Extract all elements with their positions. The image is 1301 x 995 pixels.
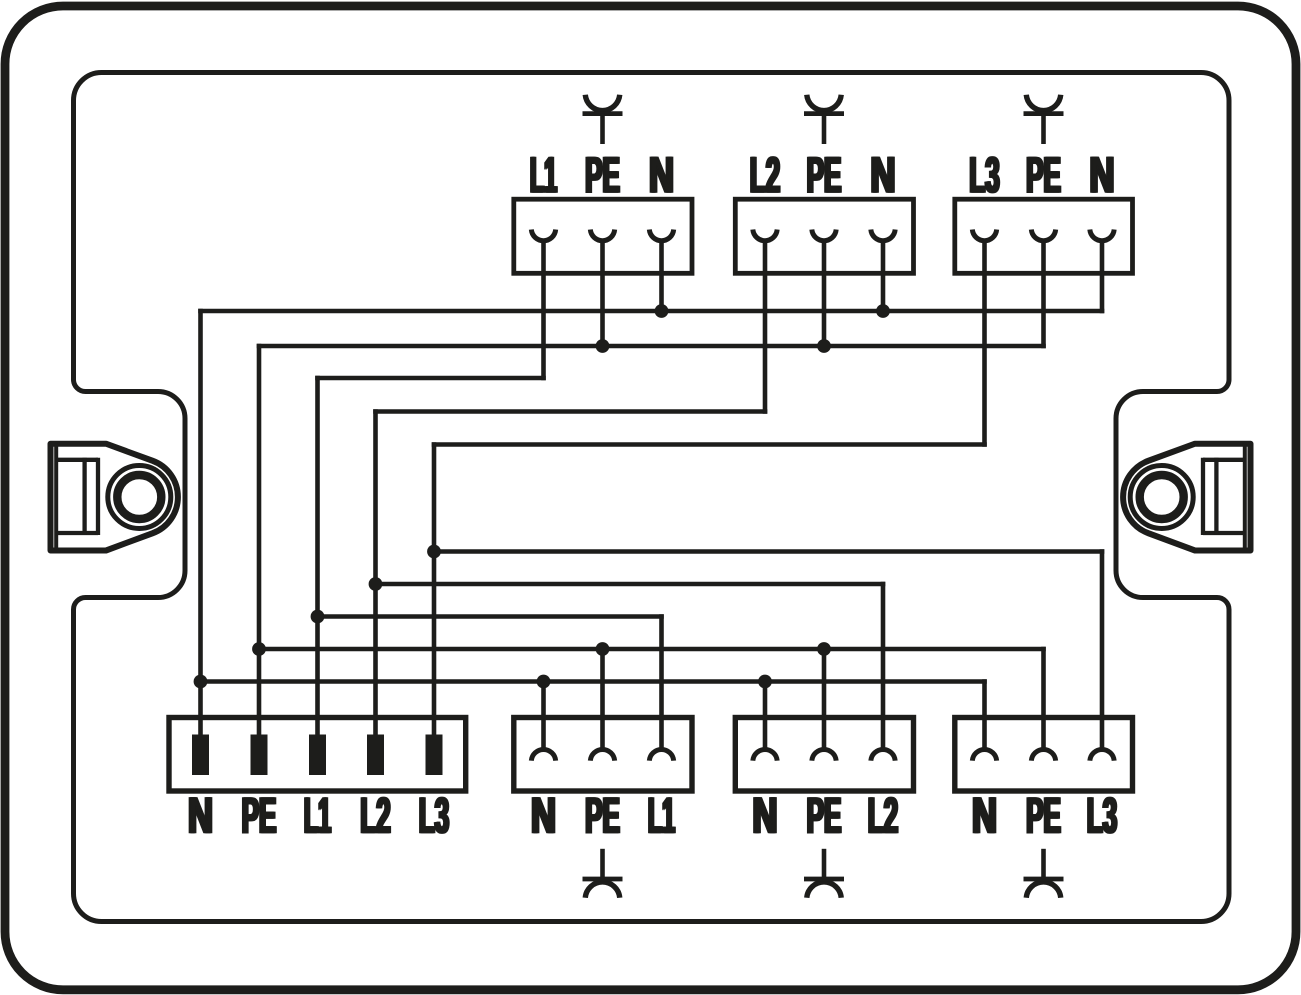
svg-text:N: N <box>872 148 897 204</box>
svg-text:PE: PE <box>586 147 621 204</box>
svg-text:PE: PE <box>808 147 843 204</box>
svg-text:PE: PE <box>586 787 621 844</box>
svg-text:N: N <box>1091 148 1116 204</box>
svg-text:L1: L1 <box>531 147 558 204</box>
svg-text:PE: PE <box>1027 147 1062 204</box>
svg-text:PE: PE <box>243 787 278 844</box>
svg-text:L2: L2 <box>869 787 899 844</box>
svg-text:N: N <box>650 148 675 204</box>
svg-text:PE: PE <box>808 787 843 844</box>
svg-text:L1: L1 <box>649 788 676 845</box>
svg-text:N: N <box>532 788 557 844</box>
svg-text:L2: L2 <box>751 147 781 204</box>
svg-text:L3: L3 <box>970 147 1000 204</box>
svg-text:L2: L2 <box>361 787 391 844</box>
svg-text:N: N <box>189 788 214 844</box>
svg-text:PE: PE <box>1027 787 1062 844</box>
svg-text:L3: L3 <box>420 787 450 844</box>
svg-text:L3: L3 <box>1088 787 1118 844</box>
svg-text:N: N <box>973 788 998 844</box>
svg-text:N: N <box>754 788 779 844</box>
svg-text:L1: L1 <box>305 788 332 845</box>
